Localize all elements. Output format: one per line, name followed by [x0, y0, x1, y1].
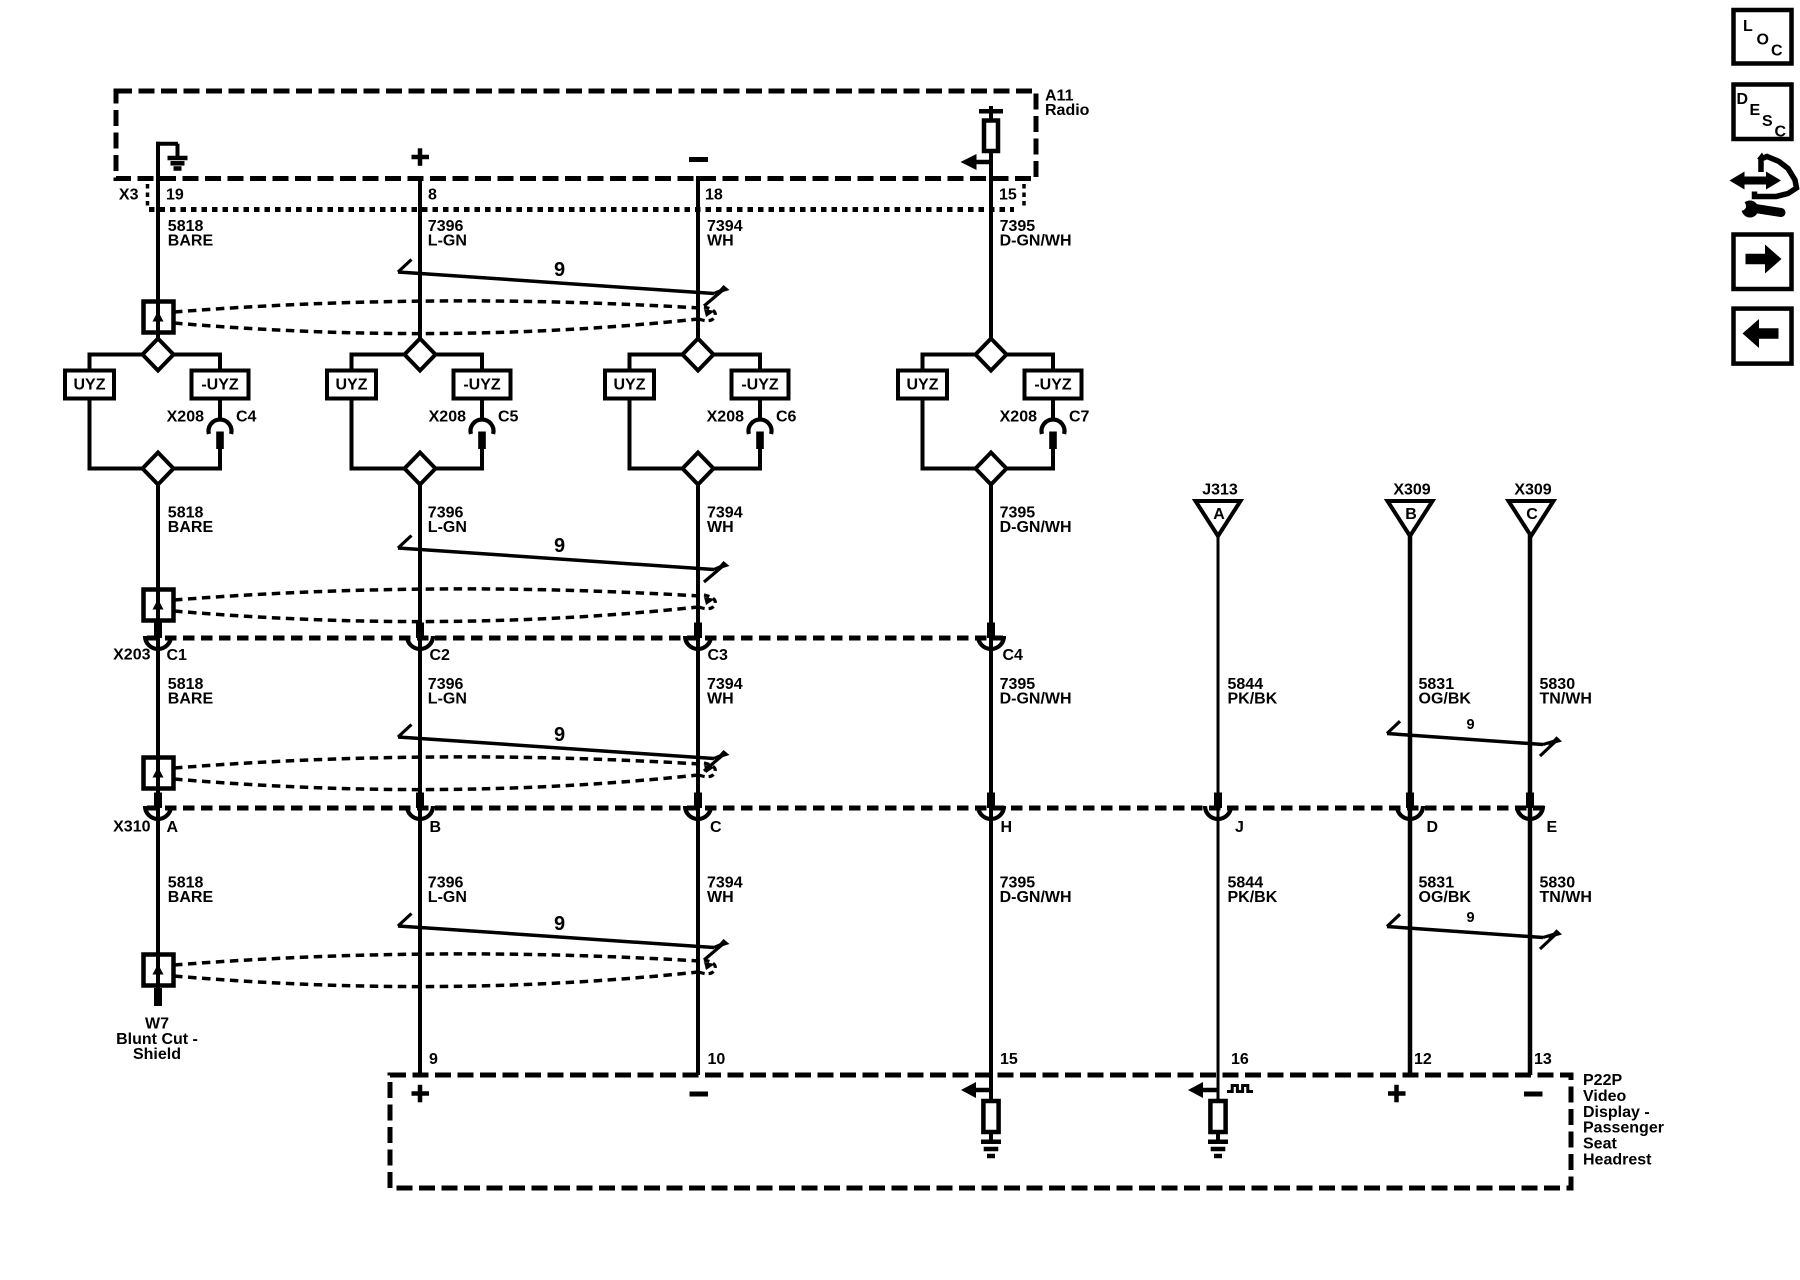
svg-text:X208: X208	[707, 408, 744, 425]
svg-text:C7: C7	[1069, 408, 1090, 425]
svg-text:OG/BK: OG/BK	[1419, 889, 1472, 906]
svg-text:18: 18	[705, 187, 723, 204]
svg-text:L-GN: L-GN	[428, 519, 467, 536]
svg-text:UYZ: UYZ	[614, 377, 646, 394]
svg-text:-UYZ: -UYZ	[463, 377, 501, 394]
svg-text:-UYZ: -UYZ	[1034, 377, 1072, 394]
svg-text:WH: WH	[707, 233, 734, 250]
svg-text:Headrest: Headrest	[1583, 1152, 1652, 1169]
svg-text:C: C	[1526, 506, 1538, 523]
svg-text:C3: C3	[708, 647, 729, 664]
svg-text:B: B	[1405, 506, 1417, 523]
svg-text:X208: X208	[429, 408, 466, 425]
svg-text:9: 9	[554, 913, 565, 935]
svg-text:16: 16	[1231, 1051, 1249, 1068]
svg-text:J: J	[1235, 819, 1244, 836]
svg-text:-UYZ: -UYZ	[201, 377, 239, 394]
svg-text:O: O	[1757, 32, 1769, 49]
svg-text:X208: X208	[167, 408, 204, 425]
svg-text:L-GN: L-GN	[428, 691, 467, 708]
svg-text:X203: X203	[113, 647, 150, 664]
svg-text:WH: WH	[707, 519, 734, 536]
svg-text:X309: X309	[1393, 482, 1430, 499]
svg-text:E: E	[1750, 102, 1761, 119]
svg-text:X208: X208	[1000, 408, 1037, 425]
svg-text:C4: C4	[1003, 647, 1024, 664]
svg-text:H: H	[1001, 819, 1013, 836]
svg-text:D: D	[1427, 819, 1439, 836]
svg-text:UYZ: UYZ	[907, 377, 939, 394]
svg-text:Radio: Radio	[1045, 102, 1090, 119]
svg-text:15: 15	[999, 187, 1017, 204]
svg-text:L-GN: L-GN	[428, 889, 467, 906]
svg-text:-UYZ: -UYZ	[741, 377, 779, 394]
svg-text:C: C	[710, 819, 722, 836]
svg-text:Video: Video	[1583, 1088, 1627, 1105]
svg-text:L: L	[1743, 18, 1753, 35]
svg-text:TN/WH: TN/WH	[1540, 691, 1592, 708]
svg-text:9: 9	[1466, 717, 1474, 733]
svg-text:C6: C6	[776, 408, 797, 425]
svg-text:WH: WH	[707, 691, 734, 708]
svg-text:UYZ: UYZ	[74, 377, 106, 394]
svg-text:X3: X3	[119, 187, 139, 204]
svg-text:D: D	[1737, 91, 1749, 108]
svg-text:Shield: Shield	[133, 1046, 181, 1063]
svg-text:D-GN/WH: D-GN/WH	[1000, 691, 1072, 708]
svg-text:C: C	[1771, 43, 1783, 60]
svg-text:C2: C2	[430, 647, 451, 664]
svg-text:9: 9	[554, 535, 565, 557]
svg-text:D-GN/WH: D-GN/WH	[1000, 889, 1072, 906]
svg-text:C4: C4	[236, 408, 257, 425]
svg-text:C5: C5	[498, 408, 519, 425]
svg-text:9: 9	[554, 259, 565, 281]
svg-text:B: B	[430, 819, 442, 836]
svg-text:13: 13	[1534, 1051, 1552, 1068]
svg-text:10: 10	[708, 1051, 726, 1068]
svg-text:C1: C1	[167, 647, 188, 664]
svg-text:9: 9	[554, 724, 565, 746]
svg-text:PK/BK: PK/BK	[1228, 691, 1278, 708]
svg-text:A: A	[167, 819, 179, 836]
svg-text:OG/BK: OG/BK	[1419, 691, 1472, 708]
svg-text:Seat: Seat	[1583, 1136, 1617, 1153]
svg-text:BARE: BARE	[168, 889, 214, 906]
svg-text:X310: X310	[113, 819, 150, 836]
svg-text:19: 19	[166, 187, 184, 204]
svg-text:UYZ: UYZ	[336, 377, 368, 394]
svg-text:TN/WH: TN/WH	[1540, 889, 1592, 906]
svg-text:J313: J313	[1202, 482, 1238, 499]
svg-text:15: 15	[1000, 1051, 1018, 1068]
svg-text:A: A	[1213, 506, 1225, 523]
svg-text:12: 12	[1414, 1051, 1432, 1068]
svg-text:PK/BK: PK/BK	[1228, 889, 1278, 906]
svg-text:Display -: Display -	[1583, 1104, 1650, 1121]
svg-text:C: C	[1775, 124, 1787, 141]
svg-text:9: 9	[1466, 910, 1474, 926]
svg-text:Passenger: Passenger	[1583, 1120, 1664, 1137]
svg-text:9: 9	[429, 1051, 438, 1068]
svg-text:BARE: BARE	[168, 519, 214, 536]
svg-text:E: E	[1547, 819, 1558, 836]
svg-text:P22P: P22P	[1583, 1072, 1622, 1089]
svg-text:WH: WH	[707, 889, 734, 906]
svg-text:8: 8	[428, 187, 437, 204]
svg-text:L-GN: L-GN	[428, 233, 467, 250]
svg-text:X309: X309	[1514, 482, 1551, 499]
svg-text:S: S	[1762, 113, 1773, 130]
svg-text:W7: W7	[145, 1016, 169, 1033]
svg-text:BARE: BARE	[168, 233, 214, 250]
svg-text:D-GN/WH: D-GN/WH	[1000, 233, 1072, 250]
svg-text:D-GN/WH: D-GN/WH	[1000, 519, 1072, 536]
svg-text:BARE: BARE	[168, 691, 214, 708]
